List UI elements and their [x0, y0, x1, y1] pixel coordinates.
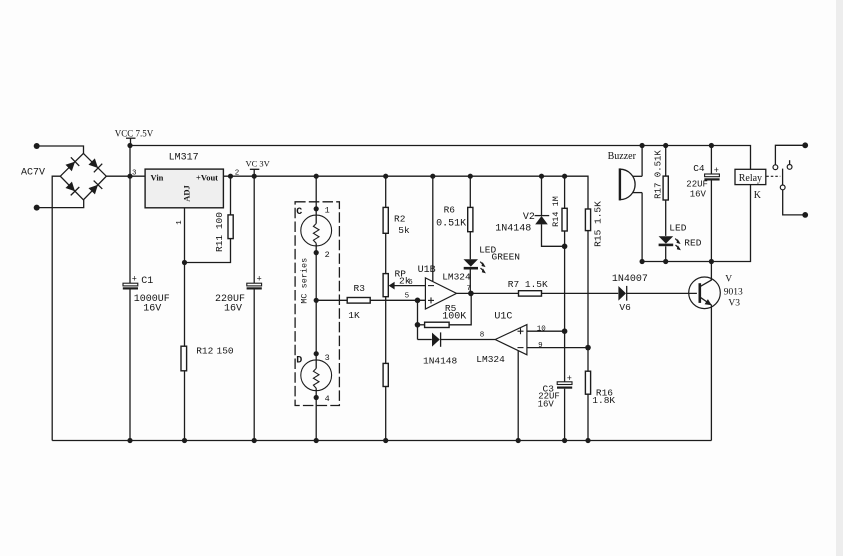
svg-text:2: 2 — [235, 170, 240, 178]
svg-text:R14 1M: R14 1M — [551, 196, 561, 227]
svg-text:K: K — [754, 190, 762, 201]
svg-text:Vin: Vin — [151, 173, 164, 183]
svg-text:LM317: LM317 — [169, 152, 199, 163]
svg-text:R11 100: R11 100 — [214, 212, 225, 252]
svg-text:V3: V3 — [728, 298, 740, 308]
svg-text:5: 5 — [405, 292, 410, 300]
svg-text:4: 4 — [325, 394, 330, 404]
svg-text:1N4007: 1N4007 — [612, 274, 648, 285]
svg-text:V2: V2 — [523, 212, 535, 223]
svg-text:6: 6 — [408, 279, 413, 287]
svg-text:22UF: 22UF — [686, 179, 708, 189]
svg-text:1: 1 — [176, 220, 184, 225]
svg-text:V6: V6 — [619, 302, 631, 313]
svg-text:+: + — [132, 274, 137, 284]
svg-text:R12: R12 — [196, 346, 213, 357]
svg-text:V: V — [725, 274, 732, 284]
svg-text:RED: RED — [684, 237, 701, 248]
svg-text:1K: 1K — [348, 310, 360, 321]
svg-text:7: 7 — [467, 285, 472, 293]
svg-text:LM324: LM324 — [442, 271, 471, 282]
svg-text:ADJ: ADJ — [182, 184, 192, 201]
svg-text:C4: C4 — [693, 163, 705, 174]
svg-text:1N4148: 1N4148 — [423, 355, 458, 366]
svg-text:R6: R6 — [444, 204, 456, 215]
svg-text:+: + — [257, 274, 262, 284]
svg-text:R15 1.5K: R15 1.5K — [593, 201, 604, 247]
svg-text:LM324: LM324 — [476, 354, 505, 365]
svg-text:R7 1.5K: R7 1.5K — [508, 279, 548, 290]
svg-text:LED: LED — [669, 223, 686, 234]
svg-text:8: 8 — [480, 332, 485, 340]
svg-text:+Vout: +Vout — [196, 173, 218, 183]
svg-text:Relay: Relay — [739, 173, 762, 184]
svg-text:5k: 5k — [398, 225, 410, 236]
svg-text:MC series: MC series — [299, 258, 309, 304]
svg-text:16V: 16V — [538, 400, 555, 410]
svg-text:9: 9 — [538, 342, 543, 350]
svg-text:9013: 9013 — [724, 288, 743, 298]
svg-text:10: 10 — [537, 325, 547, 333]
svg-text:16V: 16V — [143, 303, 161, 314]
svg-text:3: 3 — [132, 170, 137, 178]
svg-text:100K: 100K — [442, 312, 466, 323]
svg-text:C: C — [296, 207, 302, 218]
svg-text:AC7V: AC7V — [21, 168, 45, 179]
svg-text:1.8K: 1.8K — [592, 395, 615, 406]
svg-text:C1: C1 — [141, 276, 153, 287]
svg-text:R17 0.51K: R17 0.51K — [654, 150, 664, 199]
svg-text:D: D — [296, 356, 302, 367]
svg-text:3: 3 — [325, 353, 330, 363]
svg-text:2: 2 — [325, 250, 330, 260]
svg-text:Buzzer: Buzzer — [608, 151, 637, 162]
svg-text:16V: 16V — [224, 303, 242, 314]
svg-text:U1B: U1B — [418, 265, 436, 276]
svg-text:150: 150 — [217, 346, 234, 357]
svg-text:U1C: U1C — [494, 312, 512, 323]
svg-text:+: + — [714, 165, 719, 175]
svg-text:1: 1 — [325, 205, 330, 215]
svg-text:VC 3V: VC 3V — [246, 158, 271, 168]
svg-text:GREEN: GREEN — [492, 251, 521, 262]
svg-text:R3: R3 — [354, 283, 366, 294]
svg-text:1N4148: 1N4148 — [495, 223, 531, 234]
svg-text:VCC 7.5V: VCC 7.5V — [115, 129, 154, 139]
svg-text:16V: 16V — [690, 190, 707, 200]
svg-text:0.51K: 0.51K — [436, 218, 466, 229]
svg-text:R2: R2 — [394, 214, 406, 225]
svg-text:+: + — [567, 373, 572, 383]
